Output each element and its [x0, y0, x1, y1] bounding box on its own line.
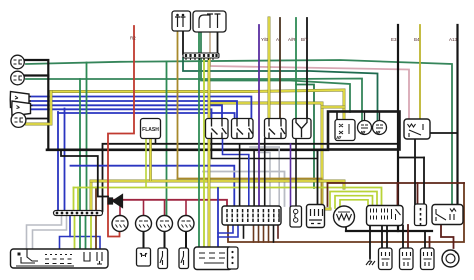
- wire green down left a: [79, 79, 81, 211]
- wire green A/R: [295, 18, 297, 119]
- wire yellow link: [322, 106, 344, 109]
- wire brown block down a: [253, 225, 255, 242]
- motor: [442, 250, 459, 267]
- wire black block stub b: [273, 225, 275, 242]
- wire yellow main: [51, 90, 344, 120]
- wire black block stub: [243, 225, 245, 238]
- wire yellowgreen flash down: [145, 139, 147, 188]
- rear lamp assembly box: [328, 112, 400, 150]
- wire yellowgreen down left 2: [77, 188, 79, 212]
- wire yellowgreen nest b: [335, 196, 373, 208]
- svg-text:FLASH: FLASH: [142, 127, 159, 133]
- wire black coil2 a: [402, 226, 404, 249]
- wire black lamp2 stub: [25, 74, 48, 76]
- wire yellowgreen under bar: [203, 58, 205, 247]
- bulb box under G2: [137, 248, 151, 266]
- wire yellow under bar: [208, 58, 211, 247]
- wire purple Y: [258, 25, 260, 206]
- wire purple fuse feed: [290, 144, 292, 206]
- svg-text:A: A: [276, 37, 279, 42]
- mid connector block: [222, 206, 281, 225]
- wire black main bus: [47, 149, 328, 152]
- wire maroon motor: [441, 225, 454, 249]
- switch box swA: [206, 119, 229, 139]
- wire blue down left b: [64, 109, 66, 212]
- flasher relay FLASH: [141, 119, 161, 139]
- wire maroon coil3 b: [429, 237, 431, 248]
- wire brown bar down: [95, 216, 97, 249]
- gauge G4: [178, 216, 194, 232]
- relay F: [404, 119, 430, 139]
- wire blue hl4: [24, 109, 212, 118]
- wire crimson g3: [164, 200, 166, 216]
- wire black relayF down b: [423, 158, 425, 205]
- battery: [307, 205, 325, 228]
- svg-text:Y/B: Y/B: [261, 37, 268, 42]
- switch box swD wye: [293, 119, 312, 139]
- fuse box: [290, 206, 302, 227]
- tail lamp E2: [373, 121, 387, 135]
- small box: [415, 204, 427, 226]
- wire black A13: [456, 25, 458, 205]
- wire black g4 drop: [185, 231, 187, 248]
- lamp L3: [11, 113, 26, 128]
- wire black boxA pin: [182, 31, 184, 54]
- wire black coil3 a: [424, 231, 426, 248]
- wire yellowgreen nest c: [340, 200, 368, 208]
- wire black swD drop2: [295, 139, 297, 207]
- wire green bar down b: [85, 216, 87, 249]
- wire black bottom bus: [346, 230, 432, 232]
- wire darkbrown A: [279, 18, 281, 119]
- wire maroon coil2 b: [407, 225, 409, 248]
- wire black magneto down: [345, 227, 347, 232]
- wire black relayF down a: [414, 139, 416, 204]
- wire black boxB pin: [217, 32, 219, 54]
- wire brown main bus: [228, 183, 464, 242]
- wire grey step2: [33, 216, 67, 249]
- wire green mid: [296, 85, 314, 189]
- svg-text:B/Y: B/Y: [301, 37, 308, 42]
- CDI connector box: [194, 247, 232, 270]
- wire crimson g2: [143, 200, 145, 216]
- ignition switch T2: [193, 11, 226, 32]
- wire black lamp bus: [25, 60, 48, 150]
- wire blue step: [60, 216, 71, 249]
- wire yellowgreen nest a: [330, 192, 377, 209]
- wire blue hl1: [30, 97, 251, 119]
- wire black flash down: [155, 139, 157, 144]
- wire blue hl3: [30, 105, 222, 118]
- wire brown block down b: [258, 225, 260, 242]
- relay R2: [432, 205, 463, 225]
- lamp L2 front indicator: [11, 71, 25, 85]
- connector bar top: [183, 53, 219, 60]
- wire maroon smallbox feed: [417, 183, 419, 204]
- wire green boxB: [198, 32, 200, 247]
- wire red main R: [108, 26, 134, 237]
- wire black E3: [397, 25, 399, 231]
- wire tan boxB: [209, 32, 211, 66]
- wire black upper mid: [103, 144, 399, 211]
- wire brown down left: [95, 188, 97, 212]
- svg-text:A/R: A/R: [288, 37, 296, 42]
- wire olive ignition: [177, 31, 179, 179]
- wire brown block down c: [263, 225, 265, 242]
- wire black bundle 1: [239, 144, 241, 206]
- wire maroon rectifier feed: [397, 183, 399, 206]
- wire yellow L3: [27, 92, 52, 125]
- switch box under G3: [158, 248, 168, 269]
- gauge G1: [112, 216, 128, 232]
- wire crimson g1: [119, 200, 121, 216]
- ground rectifier: [366, 258, 375, 265]
- wire green headlamp feed top: [26, 60, 452, 205]
- wire black relay R2 feed: [430, 132, 458, 134]
- wire blue cdi: [217, 188, 219, 247]
- left connector bar: [54, 211, 103, 216]
- wire black g2 drop: [143, 231, 145, 248]
- wire yellowgreen down left: [73, 188, 75, 212]
- switch box swB: [232, 119, 254, 139]
- coil 3: [421, 248, 435, 270]
- headlamp unit: [10, 92, 29, 108]
- wire black g3 drop: [164, 231, 166, 248]
- svg-text:R2: R2: [130, 36, 136, 41]
- coil 2: [400, 248, 414, 270]
- wire green to lamp unit: [201, 32, 350, 112]
- wire green ignition to tail lamp E2: [183, 58, 378, 120]
- main switch block bottom left: [11, 249, 109, 268]
- wire black rectifier gnd: [369, 225, 371, 258]
- wire grey upper a: [250, 147, 279, 206]
- connector 3pin box: [228, 247, 239, 269]
- wire blue hl5: [58, 113, 235, 119]
- wire black coil1 a: [381, 226, 383, 249]
- wire black B/Y: [306, 18, 308, 119]
- wire black relayF link: [398, 157, 424, 159]
- rectifier: [367, 206, 404, 226]
- wire black swA drop: [212, 139, 318, 159]
- wire blue hl2: [30, 101, 237, 119]
- wire blue block hook 2: [218, 225, 238, 237]
- wire black bundle 2: [253, 150, 255, 206]
- svg-text:A13: A13: [449, 37, 458, 42]
- coil 1: [379, 248, 393, 270]
- wire brown block down d: [268, 225, 270, 242]
- wire blue mid: [71, 166, 235, 206]
- stop tail bulb unit: [335, 120, 355, 141]
- wire pink W/R: [210, 66, 409, 119]
- wire yellowgreen mid: [74, 188, 382, 205]
- wire grey upper b: [258, 153, 270, 207]
- wire crimson g4: [185, 200, 187, 216]
- wire blue block hook 1: [218, 225, 233, 233]
- svg-text:E3: E3: [391, 37, 397, 42]
- wire yellow flash down: [149, 139, 152, 182]
- wire black coil1 b: [386, 225, 388, 248]
- wire grey step1: [27, 216, 62, 249]
- flasher box T1: [172, 11, 191, 31]
- gauge G3: [157, 216, 173, 232]
- wire blue swA drop2: [223, 139, 249, 207]
- wire crimson instrument bus: [110, 200, 227, 206]
- wire blue U: [70, 237, 100, 250]
- lamp L1 front indicator: [11, 55, 25, 69]
- wire black bulbunit feed: [336, 112, 338, 120]
- wire yellow mid: [91, 181, 344, 188]
- wire olive B4: [419, 25, 421, 119]
- switch box swC: [265, 119, 287, 139]
- switch box under G4: [179, 248, 189, 269]
- wire green tachometer feed: [166, 62, 168, 216]
- wire yellow Y/B: [268, 18, 271, 119]
- wire green bar down a: [79, 216, 81, 249]
- wire brown loop top: [328, 182, 465, 184]
- magneto: [334, 206, 355, 227]
- wire black horn feed: [61, 150, 108, 197]
- wire olive mid: [178, 179, 322, 205]
- wire yellowgreen bar down b: [90, 216, 92, 249]
- wire yellow down left: [90, 181, 93, 211]
- wire green L2 to tail lamp E1: [26, 79, 362, 121]
- wire green down left b: [86, 63, 88, 212]
- svg-text:B4: B4: [414, 37, 420, 42]
- wire maroon block stub: [277, 225, 279, 238]
- wire black bundle 3: [264, 139, 266, 207]
- wire blue down left a: [57, 112, 59, 211]
- tail lamp E1: [358, 121, 372, 135]
- wire yellow lower: [209, 103, 330, 209]
- wire black battery feed: [317, 150, 319, 204]
- gauge G2: [136, 216, 152, 232]
- wire labels: [130, 36, 458, 43]
- wire yellowgreen bar down a: [74, 216, 76, 249]
- wire black headlamp link: [27, 118, 49, 120]
- wire grey mid: [203, 172, 285, 207]
- horn: [108, 198, 113, 204]
